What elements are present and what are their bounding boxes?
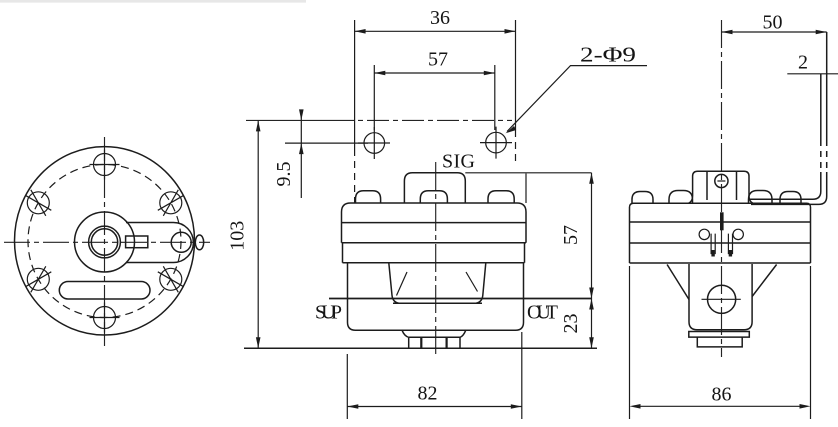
dim 50 line [722, 31, 827, 33]
side band line 2 [630, 242, 811, 244]
funnel tick right [466, 272, 478, 292]
svg-text:SUP: SUP [315, 302, 342, 324]
signal cap [404, 173, 465, 203]
keyhole tab [126, 223, 193, 263]
side band line 1 [630, 221, 811, 223]
bolt hole 6 (330deg) [160, 268, 182, 290]
dim 86 extension left [629, 266, 631, 419]
bolt hole 3 (150deg) [27, 192, 49, 214]
bracket outline [689, 171, 754, 203]
dim 82 extension left [346, 354, 348, 419]
small rectangle port in tab [126, 236, 148, 248]
band top bump 2 [669, 191, 693, 204]
top bump right [488, 191, 514, 203]
funnel slant left [667, 265, 689, 300]
funnel cut bottom line [393, 302, 482, 304]
hub outer circle [89, 226, 121, 258]
svg-text:57: 57 [560, 225, 582, 245]
svg-text:2-Φ9: 2-Φ9 [580, 43, 636, 67]
svg-text:103: 103 [227, 221, 249, 251]
dim 57 line [374, 72, 495, 74]
dim 86 extension right [810, 266, 812, 419]
dim 36 extension right [515, 20, 517, 130]
horizontal centerline of flange [4, 241, 210, 243]
band top bump 3 [749, 191, 773, 204]
dim 57 right line [591, 173, 593, 299]
pin right [728, 234, 732, 255]
svg-text:86: 86 [712, 384, 732, 406]
second band sides [343, 243, 525, 263]
screw head right [733, 229, 743, 239]
band line 1 [342, 222, 527, 224]
band line 3 [343, 262, 525, 264]
screw head left [699, 229, 709, 239]
mounting hole left [364, 133, 385, 154]
dim 82 extension right [521, 332, 523, 419]
mounting hole right [486, 132, 507, 153]
band line 2 [342, 242, 527, 244]
side view centerline [721, 20, 723, 357]
bolt hole 1 (30deg) [160, 192, 182, 214]
side knob ellipse [195, 235, 203, 250]
port crosshair [702, 298, 741, 300]
body top band [342, 203, 527, 243]
bolt hole 2 (top) [94, 154, 116, 176]
bracket inner wall left [706, 171, 708, 200]
svg-text:36: 36 [430, 7, 450, 29]
top bump center [420, 191, 447, 203]
side band outline [630, 203, 811, 263]
vertical centerline of flange [104, 137, 106, 350]
funnel cut [389, 263, 486, 304]
body right edge extension [525, 174, 527, 204]
foot pins [421, 337, 446, 348]
lower step block [689, 332, 750, 338]
svg-text:23: 23 [560, 314, 582, 334]
bracket arm inner vertical [820, 74, 822, 140]
dim 103 line [257, 120, 259, 348]
svg-text:82: 82 [418, 383, 438, 405]
top bump left [356, 191, 381, 203]
foot box [409, 337, 460, 348]
dim 36 line [355, 30, 516, 32]
side band bottom [630, 262, 811, 264]
dim 36 extension left [354, 20, 356, 149]
hole center line [285, 142, 368, 144]
bracket hole [715, 174, 728, 187]
dim 57 extension right [494, 65, 496, 130]
flange outer circle [15, 147, 195, 335]
bolt circle (dashed) [28, 165, 181, 318]
bottom slot (obround) [59, 282, 150, 300]
svg-text:57: 57 [428, 49, 448, 71]
mid body outline [348, 263, 524, 330]
lower funnel body [689, 264, 752, 330]
dim 86 line [633, 405, 806, 407]
funnel tick left [397, 272, 408, 296]
hub boss circle [75, 212, 135, 272]
band top bump 4 [780, 192, 801, 204]
pin left [711, 234, 715, 255]
port circle [708, 285, 736, 313]
center thick pin [720, 212, 724, 230]
foot upper trapezoid [402, 330, 466, 337]
body vertical centerline [435, 162, 437, 357]
svg-text:9.5: 9.5 [273, 162, 295, 187]
svg-text:OUT: OUT [527, 302, 558, 324]
leader 2-phi9 [507, 66, 647, 132]
foot step line [409, 336, 460, 338]
svg-text:50: 50 [763, 12, 783, 34]
dim 9.5 line [300, 114, 302, 198]
scan artifact top edge [0, 0, 306, 3]
dim 2 line [787, 73, 838, 75]
bolt hole 4 (210deg) [27, 268, 49, 290]
cap top extension line to dim [465, 172, 591, 174]
SUP OUT port line [329, 298, 592, 300]
tab end hole [171, 232, 191, 252]
bolt hole 5 (bottom) [94, 307, 116, 329]
bracket inner wall right [736, 171, 738, 200]
funnel slant right [752, 265, 777, 297]
plate top dash-dot line [246, 119, 332, 121]
dim 23 line [591, 299, 593, 349]
bracket arm outer vertical [826, 32, 828, 140]
svg-text:2: 2 [798, 52, 808, 74]
dim 82 line [347, 406, 522, 408]
svg-text:SIG: SIG [442, 151, 475, 173]
hub inner circle [91, 229, 117, 255]
ground base line [244, 347, 597, 349]
dim 57 extension left [373, 65, 375, 130]
side foot [697, 337, 742, 347]
band top bump 1 [632, 192, 653, 204]
